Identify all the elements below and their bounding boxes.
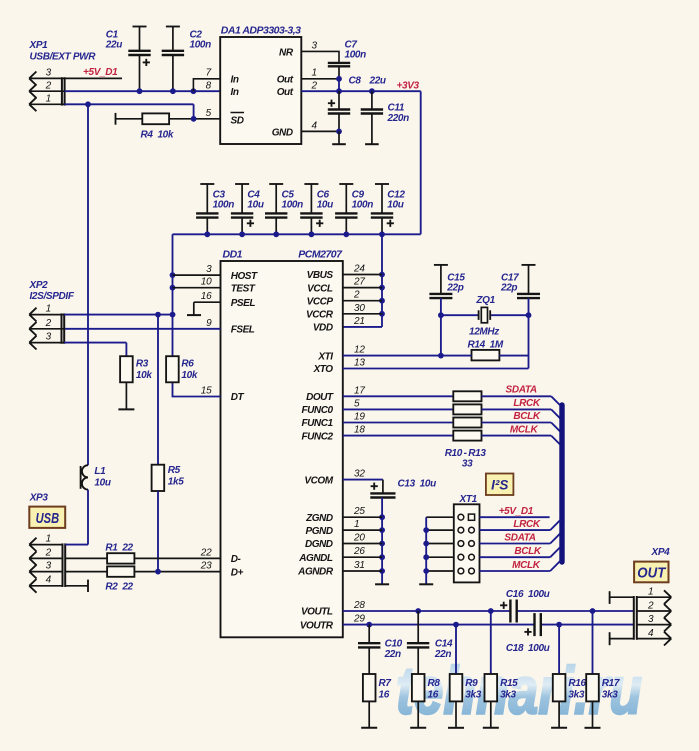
svg-text:LRCK: LRCK [513,398,541,409]
svg-text:AGNDL: AGNDL [298,553,333,564]
connector XP2 I2S/SPDIF [29,280,75,350]
wire XTO pin 13 [343,368,529,370]
DD1 right pin names [297,270,334,631]
wire TEST pin 10 stub [173,287,221,289]
net label SDATA at XT1 [504,533,535,544]
wire XT1 SDATA to I2S bus [480,533,561,543]
wire XP1 pin 3 (+5V_D1 stub) [29,77,122,79]
ground stub under C8 [332,131,346,144]
capacitor C5 100n [265,184,303,237]
svg-text:12: 12 [354,345,365,356]
svg-text:100n: 100n [345,50,367,61]
svg-text:DT: DT [231,392,245,403]
connector XP1 USB/EXT PWR [29,40,97,111]
svg-text:15: 15 [201,386,212,397]
svg-text:DA1 ADP3303-3,3: DA1 ADP3303-3,3 [221,25,301,37]
svg-text:10k: 10k [136,370,152,381]
svg-text:R3: R3 [136,359,149,370]
resistor R2 22 [65,566,134,592]
svg-text:1: 1 [312,68,317,79]
capacitor C15 22p [429,265,465,298]
svg-text:17: 17 [354,385,365,396]
wire PSEL pin 16 tie-off [187,302,221,315]
svg-text:+3V3: +3V3 [397,80,420,91]
svg-text:3: 3 [46,68,52,79]
net label BCLK at XT1 [514,546,542,557]
crystal ZQ1 12MHz [438,295,531,369]
svg-text:20: 20 [353,533,365,544]
net label SDATA [506,385,537,396]
svg-text:3: 3 [46,332,52,343]
svg-text:12MHz: 12MHz [469,327,499,338]
resistor R17 3k3 [585,611,620,728]
svg-text:22u: 22u [369,76,386,87]
svg-text:BCLK: BCLK [514,546,542,557]
svg-text:4: 4 [46,575,52,586]
wire DA1 NR pin 3 to C7 [301,51,339,63]
svg-text:2: 2 [353,290,360,301]
svg-text:C8: C8 [349,76,362,87]
svg-text:C13 10u: C13 10u [398,479,437,490]
svg-text:C18 100u: C18 100u [506,643,550,654]
resistor R4 10k [116,113,221,141]
svg-text:33: 33 [462,459,473,470]
capacitor C17 22p [500,265,540,298]
svg-text:Out: Out [277,74,294,85]
svg-text:+5V_D1: +5V_D1 [83,67,118,78]
svg-text:3k3: 3k3 [602,690,618,701]
svg-text:24: 24 [353,264,365,275]
svg-text:GND: GND [272,127,293,138]
wire VOUTL pin 28 [343,608,634,614]
svg-text:R14 1M: R14 1M [468,339,504,350]
wire XP2 pin 3 to R3 [64,343,126,357]
svg-text:C11: C11 [388,103,405,114]
resistor R7 16 [361,674,391,728]
DD1 left pin names [231,271,258,579]
svg-text:R2 22: R2 22 [105,582,133,593]
svg-text:3: 3 [46,561,52,572]
svg-text:PCM2707: PCM2707 [298,249,343,261]
svg-text:MCLK: MCLK [512,560,541,571]
svg-text:4: 4 [648,628,654,639]
net label BCLK [513,411,541,422]
wire XP2 pin 1 [64,312,175,318]
svg-text:9: 9 [206,318,212,329]
svg-text:VBUS: VBUS [307,270,334,281]
svg-text:3k3: 3k3 [465,690,481,701]
svg-text:I²S: I²S [491,477,508,492]
svg-text:22u: 22u [105,40,122,51]
svg-text:FSEL: FSEL [231,325,255,336]
capacitor C6 10u [300,184,333,237]
svg-text:DGND: DGND [305,539,333,550]
wire XT1 +5V_D1 stub [480,516,550,518]
svg-text:30: 30 [354,303,365,314]
wire HOST pin 3 stub [173,274,221,276]
svg-text:VDD: VDD [313,323,333,334]
svg-text:16: 16 [428,690,439,701]
svg-text:23: 23 [200,561,212,572]
svg-text:XP4: XP4 [651,547,671,558]
wire DA1 Out pin 2 to +3V3 rail [301,79,420,94]
capacitor C13 10u [343,479,436,498]
svg-text:USB: USB [36,511,60,527]
svg-text:8: 8 [206,80,212,91]
svg-text:R9: R9 [465,678,478,689]
svg-text:DOUT: DOUT [306,392,334,403]
svg-text:MCLK: MCLK [510,424,539,435]
resistor R11 33 [343,404,561,418]
svg-text:100n: 100n [213,200,235,211]
svg-text:3: 3 [312,41,318,52]
svg-text:XT1: XT1 [459,494,478,505]
capacitor C10 22n [358,625,403,674]
svg-text:16: 16 [201,291,212,302]
DD1 pin numbers right [353,264,365,625]
resistor R9 3k3 [448,625,482,728]
svg-text:D+: D+ [231,567,244,578]
wire XT1 LRCK to I2S bus [480,520,561,530]
svg-text:D-: D- [231,554,242,565]
svg-text:100n: 100n [282,200,304,211]
svg-text:SD: SD [231,116,244,127]
connector XP3 USB [29,493,65,593]
svg-text:R17: R17 [602,678,620,689]
wire DGND 20 stub [343,543,382,545]
net label MCLK [510,424,539,435]
svg-text:PGND: PGND [306,526,333,537]
wire PGND 1 stub [343,529,382,531]
XT1 contacts [458,514,475,574]
svg-text:In: In [231,87,239,98]
svg-text:SDATA: SDATA [504,533,535,544]
net label LRCK at XT1 [513,519,541,530]
svg-text:PSEL: PSEL [231,298,256,309]
svg-text:18: 18 [354,425,365,436]
DA1 pin numbers [206,41,318,132]
wire R2 to D+ pin 23 [134,569,220,575]
decorative watermark (not labelled component) [396,654,642,729]
capacitor C8 22u [328,76,386,132]
svg-text:ZQ1: ZQ1 [475,295,495,306]
resistor R13 33 [343,431,561,445]
svg-text:3k3: 3k3 [568,690,584,701]
net label +5V_D1 [83,67,118,78]
svg-text:R6: R6 [181,359,194,370]
svg-text:VOUTR: VOUTR [300,620,334,631]
svg-text:10u: 10u [317,200,333,211]
svg-text:2: 2 [45,318,52,329]
svg-text:R7: R7 [379,678,392,689]
wire VCCP pin 2 stub [343,300,382,302]
svg-text:22: 22 [200,547,212,558]
svg-text:FUNC0: FUNC0 [302,405,334,416]
svg-text:VCCR: VCCR [306,310,334,321]
svg-text:SDATA: SDATA [506,385,537,396]
IC DD1 PCM2707 [221,249,344,638]
svg-text:R16: R16 [568,678,586,689]
wire R1 to D- pin 22 [134,557,220,559]
svg-text:LRCK: LRCK [513,519,541,530]
svg-text:3: 3 [648,614,654,625]
svg-text:XP3: XP3 [29,493,49,504]
wire XP4 pin 4 tie-off [610,632,634,645]
svg-text:AGNDR: AGNDR [297,567,334,578]
svg-text:31: 31 [354,560,365,571]
svg-text:1: 1 [648,587,653,598]
wire +3V3 rail down [420,91,422,234]
svg-text:1: 1 [354,519,359,530]
svg-text:2: 2 [45,80,52,91]
svg-text:2: 2 [45,547,52,558]
svg-text:L1: L1 [94,466,106,477]
junction on pin1 wire [85,101,91,107]
svg-text:26: 26 [353,546,365,557]
wire VBUS pin 24 stub [343,274,382,276]
svg-text:19: 19 [354,412,365,423]
svg-text:22p: 22p [500,283,517,294]
wire +3V3 distribution bus [173,233,421,235]
net label +5V_D1 at XT1 [499,506,534,517]
wire VCCL pin 27 stub [343,287,382,289]
capacitor C11 220n [361,91,409,144]
wire XTI pin 12 [343,353,529,359]
DD1 pin numbers left [200,264,212,571]
svg-text:DD1: DD1 [223,249,243,261]
label I2S box [486,474,514,496]
resistor R10 33 [343,391,561,405]
wire FSEL pin 9 to XP2 pin 2 [64,328,221,330]
capacitor C18 100u [506,613,550,654]
svg-text:10: 10 [201,277,212,288]
svg-text:3k3: 3k3 [500,690,516,701]
wire DT pin 15 from R6 [173,382,221,396]
svg-text:1: 1 [46,304,51,315]
wire bus right drop to VBUS/VCC pins [343,234,385,327]
svg-text:I2S/SPDIF: I2S/SPDIF [30,291,75,302]
svg-text:XP2: XP2 [29,280,49,291]
svg-text:1: 1 [46,534,51,545]
capacitor C4 10u [231,184,264,237]
svg-text:R1 22: R1 22 [105,543,133,554]
capacitor C16 100u [500,589,550,623]
wire XP4 pin 1 tie-off [610,591,634,604]
svg-text:VCOM: VCOM [304,475,333,486]
wire XP1 pin 2 to DA1 In pin 8 [29,90,220,92]
svg-text:FUNC1: FUNC1 [302,418,334,429]
ground bus for ZGND..AGNDR [375,498,389,585]
I2S bus bar [559,405,564,562]
svg-text:4: 4 [312,121,318,132]
svg-text:3: 3 [206,264,212,275]
svg-text:2: 2 [647,600,654,611]
wire AGNDR 31 stub [343,570,382,572]
connector XT1 [454,494,480,582]
svg-text:32: 32 [354,469,365,480]
wire XT1 MCLK to I2S bus [480,561,561,571]
svg-text:10k: 10k [181,370,197,381]
svg-text:10u: 10u [247,200,263,211]
svg-text:22p: 22p [446,283,463,294]
resistor R14 1M [468,339,504,360]
junction R4/SD/pin1 [191,116,197,122]
svg-text:OUT: OUT [637,566,666,582]
wire XP1 pin 1 (GND run) [29,104,193,119]
wire XT1 left ground column [419,517,454,584]
junction dots on +5V wire [137,88,197,94]
svg-text:1k5: 1k5 [168,477,184,488]
resistor R1 22 [65,543,134,564]
svg-text:In: In [231,74,239,85]
svg-text:Out: Out [277,87,294,98]
wire XP3 pin 1 to L1 [65,544,88,546]
svg-text:10u: 10u [94,478,110,489]
svg-text:R5: R5 [168,465,181,476]
svg-text:R8: R8 [428,678,441,689]
capacitor C3 100n [196,184,234,237]
svg-text:R15: R15 [500,678,518,689]
label R10-R13 33 [445,448,487,470]
svg-text:VCCL: VCCL [307,283,333,294]
svg-text:FUNC2: FUNC2 [302,431,334,442]
wire ZGND 25 stub [343,516,382,518]
svg-text:10u: 10u [387,200,403,211]
svg-text:HOST: HOST [231,271,258,282]
svg-text:TEST: TEST [231,283,256,294]
capacitor C1 22u [105,27,151,92]
svg-text:VCCP: VCCP [307,296,334,307]
net label +3V3 [397,80,420,91]
svg-text:C16 100u: C16 100u [506,589,550,600]
wire XP1 pin1 down to L1 [87,104,89,465]
svg-text:XTI: XTI [317,351,333,362]
net label MCLK at XT1 [512,560,541,571]
wire AGNDL 26 stub [343,556,382,558]
svg-text:7: 7 [206,68,212,79]
svg-text:28: 28 [353,600,365,611]
svg-text:C14: C14 [435,639,453,650]
svg-text:27: 27 [353,277,365,288]
svg-text:XTO: XTO [313,364,334,375]
svg-text:5: 5 [206,108,212,119]
svg-text:5: 5 [354,398,360,409]
svg-text:2: 2 [311,80,318,91]
capacitor C12 10u [371,184,406,237]
resistor R6 10k [166,356,198,382]
capacitor C14 22n [407,611,453,674]
wire bus left drop to HOST/TEST/R6 [170,234,176,356]
svg-text:+5V_D1: +5V_D1 [499,506,534,517]
svg-text:21: 21 [353,316,365,327]
wire DA1 GND pin 4 [301,129,342,135]
svg-text:R4 10k: R4 10k [141,130,174,141]
inductor L1 10u [81,465,111,544]
regulator U DA1 ADP3303-3,3 [220,25,301,145]
svg-text:USB/EXT PWR: USB/EXT PWR [30,52,97,63]
svg-text:C10: C10 [385,639,403,650]
connector XP4 OUT [634,547,671,646]
svg-text:100n: 100n [352,200,374,211]
resistor R5 1k5 [152,315,185,572]
wire XT1 BCLK to I2S bus [480,547,561,557]
svg-text:1: 1 [46,93,51,104]
svg-text:25: 25 [353,506,365,517]
svg-text:XP1: XP1 [29,40,49,51]
resistor R15 3k3 [483,611,518,728]
wire VCCR pin 30 stub [343,313,382,315]
net label LRCK [513,398,541,409]
svg-text:220n: 220n [387,113,410,124]
capacitor C2 100n [162,27,211,92]
svg-text:NR: NR [279,47,294,58]
resistor R3 10k [118,356,152,409]
wire DA1 pin 7 elbow [193,79,220,91]
svg-text:VOUTL: VOUTL [301,607,333,618]
wire DA1 Out pin 1 [301,76,342,82]
DA1 pin names [231,47,294,138]
svg-text:ZGND: ZGND [305,513,333,524]
svg-text:22n: 22n [434,649,451,660]
capacitor C7 100n [328,40,366,79]
svg-text:16: 16 [379,690,390,701]
svg-text:29: 29 [353,614,365,625]
svg-text:13: 13 [354,358,365,369]
wire VOUTR pin 29 [343,622,634,628]
resistor R16 3k3 [551,625,586,728]
resistor R8 16 [410,674,440,728]
capacitor C9 100n [335,184,373,237]
resistor R12 33 [343,418,561,432]
svg-text:22n: 22n [384,649,401,660]
svg-text:R10 - R13: R10 - R13 [445,448,487,459]
svg-text:100n: 100n [190,40,212,51]
wire XP3 pin 4 tie-off [65,580,88,592]
svg-text:BCLK: BCLK [513,411,541,422]
